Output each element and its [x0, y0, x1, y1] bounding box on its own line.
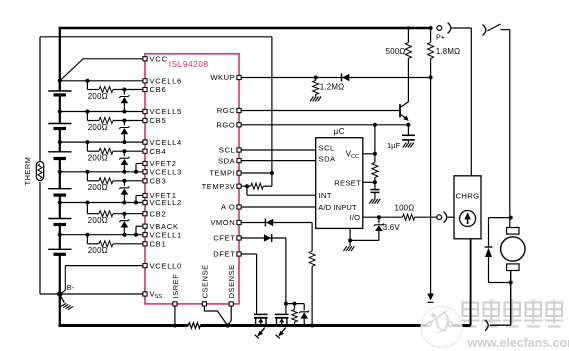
pin WKUP — [210, 73, 241, 82]
zener balance diode cell 2 — [119, 212, 129, 237]
zener balance diode cell 6 — [119, 88, 129, 114]
svg-text:www.elecfans.com: www.elecfans.com — [467, 336, 569, 350]
svg-text:THERM: THERM — [23, 157, 32, 186]
op-amp U2 microcontroller body — [316, 138, 363, 229]
label P+ — [436, 33, 445, 42]
pin TEMPI — [209, 169, 241, 178]
svg-text:CB4: CB4 — [150, 147, 167, 156]
resistor VMON — [309, 251, 315, 266]
label RESET — [334, 178, 361, 187]
wire A/D INPUT — [241, 203, 357, 212]
pin TEMP3V — [202, 182, 241, 191]
zener gate clamp — [299, 304, 309, 326]
diode VMON — [265, 219, 273, 227]
svg-text:A O: A O — [221, 203, 235, 212]
wire VCELL0 — [61, 266, 143, 294]
wire thin thermistor top rail — [40, 36, 272, 38]
node kelvin sense — [225, 323, 229, 327]
pin VCELL0 — [143, 261, 182, 270]
zener balance diode cell 4 — [119, 149, 129, 174]
resistor 1.8Mohm — [428, 43, 434, 59]
capacitor RESET — [370, 178, 379, 199]
svg-text:µC: µC — [333, 127, 344, 136]
wire VFET1 jog — [134, 196, 143, 205]
op-amp U1 ISL94208 body — [145, 54, 239, 304]
terminal P- connector — [485, 320, 488, 331]
battery cell 1 — [48, 81, 71, 112]
svg-text:RESET: RESET — [334, 178, 361, 187]
resistor 1.2Mohm — [313, 78, 319, 97]
wire VCELL5 net and balance resistor — [60, 110, 143, 124]
svg-text:RGO: RGO — [216, 121, 235, 130]
node cell junction 1 — [58, 110, 62, 114]
wire VMON divider — [310, 223, 314, 328]
switch trigger — [483, 24, 501, 35]
svg-text:200Ω: 200Ω — [88, 246, 108, 255]
wire B+ drop to cell stack — [59, 27, 61, 91]
label uC — [333, 127, 344, 136]
svg-text:CB2: CB2 — [150, 209, 167, 218]
battery cell 3 — [48, 142, 71, 172]
svg-text:200Ω: 200Ω — [88, 92, 108, 101]
svg-text:RGC: RGC — [217, 106, 236, 115]
svg-text:SDA: SDA — [218, 156, 236, 165]
ground RESET cap — [369, 199, 380, 204]
wire VCELL3 net and balance resistor — [60, 170, 143, 184]
ground uC — [343, 246, 354, 251]
label CHRG — [455, 192, 479, 201]
pin VSS — [143, 290, 162, 301]
svg-text:CB6: CB6 — [150, 85, 167, 94]
svg-text:CB3: CB3 — [150, 177, 167, 186]
transistor Q1 — [400, 102, 409, 121]
label 200ohm cell 4 — [88, 154, 108, 163]
label 200ohm cell 3 — [88, 183, 108, 192]
wire SCL — [241, 143, 335, 152]
svg-text:TEMPI: TEMPI — [209, 169, 235, 178]
svg-text:SCL: SCL — [319, 143, 335, 152]
svg-text:VCELL1: VCELL1 — [150, 230, 182, 239]
pin VFET2 — [143, 159, 177, 168]
pin VCELL1 — [143, 230, 182, 239]
svg-text:VCC: VCC — [150, 55, 168, 64]
wire RGC — [241, 110, 400, 112]
zener balance diode cell 5 — [119, 119, 129, 145]
pin VBACK — [143, 222, 179, 231]
svg-text:INT: INT — [318, 191, 332, 200]
pin CB5 — [143, 116, 166, 125]
svg-text:SDA: SDA — [319, 155, 337, 164]
pin VMON — [210, 218, 241, 227]
pin RGO — [216, 121, 241, 130]
svg-text:SCL: SCL — [219, 146, 235, 155]
label 200ohm cell 2 — [88, 216, 108, 225]
wire VCELL1 net and balance resistor — [60, 233, 143, 247]
wire bottom rail right — [453, 324, 471, 327]
pin ISREF — [171, 274, 180, 306]
zener balance diode cell 3 — [119, 179, 129, 205]
pin VCC — [143, 55, 168, 64]
wire DSENSE — [228, 306, 231, 325]
wire Vss — [60, 293, 143, 295]
label B- — [67, 283, 75, 292]
wire CFET gate — [284, 238, 288, 314]
wire bottom rail mid — [200, 324, 427, 327]
svg-text:VCELL5: VCELL5 — [150, 107, 182, 116]
charger current source symbol — [460, 211, 476, 227]
svg-text:VCELL3: VCELL3 — [150, 168, 182, 177]
node cell junction 0 — [58, 79, 62, 83]
pin RGC — [217, 106, 241, 115]
wire motor return — [490, 271, 511, 326]
label 1.8Mohm — [436, 47, 460, 56]
wire VFET2 jog — [134, 164, 143, 174]
label 500ohm — [386, 47, 406, 56]
battery cell 4 — [48, 172, 71, 203]
resistor RESET pullup — [372, 163, 378, 178]
wire RESET — [363, 180, 377, 184]
transistor Q2 discharge FET — [254, 314, 268, 338]
node cell junction 2 — [58, 140, 62, 144]
svg-text:WKUP: WKUP — [210, 73, 235, 82]
wire VCELL2 net and balance resistor — [60, 201, 143, 217]
wire P+ to charger — [452, 28, 472, 176]
svg-text:CSENSE: CSENSE — [200, 264, 209, 298]
wire top thick positive rail — [59, 27, 431, 30]
wire I/O — [363, 215, 437, 219]
wire charger bottom — [470, 239, 472, 326]
label 1.2Mohm — [320, 83, 344, 92]
zener 3.6V — [374, 217, 384, 240]
pin VCELL3 — [143, 168, 182, 177]
pin DSENSE — [227, 264, 236, 306]
svg-text:TEMP3V: TEMP3V — [202, 182, 236, 191]
svg-text:200Ω: 200Ω — [88, 183, 108, 192]
wire VMON — [241, 222, 312, 224]
svg-text:A/D INPUT: A/D INPUT — [318, 203, 357, 212]
svg-text:CFET: CFET — [213, 234, 235, 243]
svg-text:200Ω: 200Ω — [88, 123, 108, 132]
wire thermistor feed vertical — [271, 37, 273, 186]
wire SDA — [241, 155, 336, 164]
svg-text:500Ω: 500Ω — [386, 47, 406, 56]
wire zener return — [348, 238, 379, 242]
pin CB4 — [143, 147, 166, 156]
svg-text:CB5: CB5 — [150, 116, 167, 125]
svg-text:VMON: VMON — [210, 218, 235, 227]
label THERM — [23, 157, 32, 186]
svg-text:VCELL0: VCELL0 — [150, 261, 182, 270]
svg-text:B-: B- — [67, 283, 75, 292]
svg-text:I/O: I/O — [350, 213, 361, 222]
label 200ohm cell 6 — [88, 92, 108, 101]
arrow to pack negative — [427, 294, 434, 303]
wire VCELL6 net and balance resistor — [60, 79, 143, 93]
pin VCELL6 — [143, 77, 182, 86]
svg-text:DSENSE: DSENSE — [227, 264, 236, 298]
charger CHRG body — [454, 176, 481, 239]
label ISL94208 — [169, 59, 209, 69]
wire ISREF — [173, 306, 177, 327]
wire Vcc — [363, 152, 377, 156]
resistor gate — [292, 304, 298, 326]
node cell junction 4 — [58, 201, 62, 205]
wire B- horizontal — [40, 293, 60, 295]
node cell junction 5 — [58, 233, 62, 237]
terminal charger control — [437, 212, 454, 223]
battery cell 6 — [48, 235, 71, 294]
pin A O — [221, 203, 241, 212]
svg-text:ISL94208: ISL94208 — [169, 59, 209, 69]
svg-text:1µF: 1µF — [387, 141, 401, 150]
wire thermistor line down — [39, 37, 41, 294]
node P+ tap — [429, 26, 433, 80]
wire INT — [247, 186, 332, 200]
transistor Q3 charge FET — [275, 314, 289, 338]
pin VFET1 — [143, 191, 177, 200]
diode on WKUP line — [342, 74, 350, 82]
label 200ohm cell 1 — [88, 246, 108, 255]
thermistor THERM — [36, 162, 43, 181]
wire VCELL4 net and balance resistor — [60, 140, 143, 154]
ground at B- — [60, 295, 73, 311]
svg-text:200Ω: 200Ω — [88, 154, 108, 163]
pin VCELL4 — [143, 138, 182, 147]
pin CSENSE — [200, 264, 209, 306]
label 200ohm cell 5 — [88, 123, 108, 132]
wire Vcc pullup vertical — [374, 125, 376, 163]
pin VCELL2 — [143, 198, 182, 207]
ground 1uF cap — [403, 143, 414, 148]
diode CFET — [264, 234, 272, 242]
motor M body — [501, 228, 525, 271]
label 1uF — [387, 141, 401, 150]
node B- — [57, 291, 62, 296]
svg-text:CB1: CB1 — [150, 240, 167, 249]
svg-text:1.8MΩ: 1.8MΩ — [436, 47, 460, 56]
pin CFET — [213, 234, 241, 243]
wire bottom rail left — [59, 324, 189, 327]
wire uC ground — [349, 228, 351, 246]
svg-text:3.6V: 3.6V — [383, 223, 401, 232]
svg-text:VCELL2: VCELL2 — [150, 198, 182, 207]
pin CB2 — [143, 209, 166, 218]
wire VBACK jog — [134, 226, 143, 237]
label Vcc — [346, 150, 359, 160]
svg-text:CHRG: CHRG — [455, 192, 479, 201]
battery cell 5 — [48, 203, 71, 235]
wire gate clamp link — [286, 302, 304, 306]
pin SDA — [218, 156, 241, 165]
pin CB6 — [143, 85, 166, 94]
pin DFET — [213, 250, 241, 259]
switch battery disconnect — [427, 311, 453, 327]
svg-text:1.2MΩ: 1.2MΩ — [320, 83, 344, 92]
label I/O — [350, 213, 361, 222]
svg-text:P+: P+ — [436, 33, 445, 42]
battery cell 2 — [48, 112, 71, 143]
diode motor flyback — [485, 216, 513, 285]
resistor 500ohm — [405, 43, 411, 59]
capacitor 1uF — [402, 125, 415, 143]
wire CFET — [241, 237, 286, 239]
pin CB3 — [143, 177, 166, 186]
wire CSENSE — [204, 306, 227, 325]
svg-text:200Ω: 200Ω — [88, 216, 108, 225]
node cell junction 3 — [58, 170, 62, 174]
wire collector to rail — [407, 26, 410, 102]
ground 1.2M — [310, 97, 321, 102]
wire DFET gate — [241, 254, 256, 314]
wire B- stack to bottom rail — [59, 294, 61, 326]
wire WKUP — [241, 77, 430, 79]
wire 1.8M vertical — [430, 28, 432, 294]
terminal P+ — [437, 23, 451, 34]
label 3.6V — [383, 223, 401, 232]
wire switch to motor — [501, 30, 510, 228]
wire TEMP3V — [241, 183, 272, 189]
pin CB1 — [143, 240, 166, 249]
pin VCELL5 — [143, 107, 182, 116]
wire VCC — [60, 59, 143, 81]
wire RGO — [241, 123, 410, 127]
svg-text:100Ω: 100Ω — [395, 204, 415, 213]
node WKUP divider — [314, 76, 318, 80]
resistor current sense — [188, 323, 200, 329]
wire TEMPI — [241, 171, 274, 175]
svg-text:DFET: DFET — [213, 250, 235, 259]
svg-text:ISREF: ISREF — [171, 274, 180, 299]
svg-text:VCELL4: VCELL4 — [150, 138, 182, 147]
pin SCL — [219, 146, 241, 155]
resistor 100ohm — [403, 214, 415, 220]
label 100ohm — [395, 204, 415, 213]
svg-text:VCELL6: VCELL6 — [150, 77, 182, 86]
